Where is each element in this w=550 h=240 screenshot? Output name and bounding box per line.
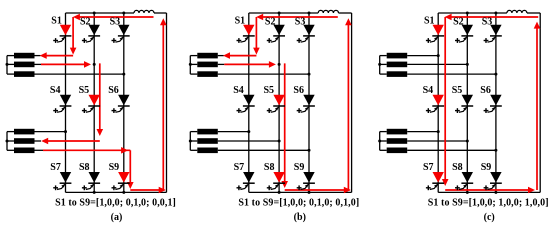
wire column 2 (S2-S5-S8) (panel a) <box>93 13 95 192</box>
svg-text:S2: S2 <box>453 16 464 27</box>
switch S5 (panel b) <box>264 85 286 113</box>
wire red path: top bus leftward (panel c) <box>445 14 539 21</box>
svg-text:S6: S6 <box>293 85 304 96</box>
wire tap group2-bar1 to node column1 (panel c) <box>407 130 440 133</box>
wire red path: down beside S5 (panel a) <box>97 63 104 136</box>
wire group-2 left connector (panel b) <box>189 132 198 151</box>
caption switch states (panel c) <box>428 197 549 208</box>
switch S2 (panel b) <box>265 16 285 43</box>
svg-text:S5: S5 <box>452 85 463 96</box>
wire bottom bus (panel b) <box>249 191 352 193</box>
wire tap group2-bar3 stub (panel a) <box>35 149 44 151</box>
wire right edge (panel c) <box>539 13 541 192</box>
wire tap group2-bar2 stub (panel a) <box>35 140 42 142</box>
wire tap group1-bar3 to node column3 (panel c) <box>407 73 497 76</box>
node top bus junctions (panel a) <box>93 12 126 15</box>
wire tap group2-bar1 to node column1 (panel b) <box>218 130 251 133</box>
wire tap group2-bar2 to node column2 (panel c) <box>407 140 469 143</box>
switch S3 (panel a) <box>110 16 130 43</box>
switch S7 (panel b) <box>234 162 255 190</box>
wire tap group1-bar3 to node column3 (panel a) <box>35 73 126 76</box>
switch S6 (panel c) <box>480 85 502 113</box>
wire red path: down beside S1 (panel b) <box>253 17 260 55</box>
caption label (b) <box>294 212 306 223</box>
node bottom bus junctions (panel b) <box>278 191 311 194</box>
caption switch states (panel b) <box>238 197 359 208</box>
svg-text:S3: S3 <box>110 16 121 27</box>
switch S6 (panel a) <box>108 85 130 113</box>
switch S1 (panel a) <box>51 15 71 43</box>
svg-text:S2: S2 <box>80 16 91 27</box>
svg-text:(b): (b) <box>294 212 306 223</box>
wire tap group1-bar1 to node column1 (panel c) <box>407 54 440 57</box>
svg-text:S5: S5 <box>79 85 90 96</box>
winding bars group 2 (panel b) <box>197 129 218 153</box>
winding bars group 1 (panel b) <box>197 53 218 77</box>
wire tap group1-bar2 stub (panel b) <box>218 63 281 66</box>
switch S4 (panel c) <box>423 85 445 113</box>
wire tap group1-bar2 stub (panel a) <box>35 63 96 66</box>
wire red path: group1-bar2 to column2 node (panel b) <box>224 61 276 68</box>
wire group-2 left connector (panel a) <box>6 132 15 151</box>
wire bottom bus (panel c) <box>438 191 540 193</box>
switch S8 (panel b) <box>264 162 285 190</box>
wire top bus (panel c) <box>438 12 540 14</box>
switch S4 (panel a) <box>50 85 72 113</box>
winding bars group 2 (panel c) <box>387 129 408 153</box>
wire red path: into group2-bar2 (panel a) <box>41 138 100 145</box>
switch S1 (panel b) <box>235 15 255 43</box>
wire red path: bottom bus rightward (panel b) <box>285 187 351 194</box>
svg-text:S2: S2 <box>265 16 276 27</box>
wire red path: down beside S1,S4,S7 (panel c) <box>442 17 449 186</box>
wire tap group1-bar1 stub (panel a) <box>35 55 41 57</box>
svg-text:S4: S4 <box>50 85 61 96</box>
wire column 1 (S1-S4-S7) (panel b) <box>248 13 250 192</box>
switch S3 (panel b) <box>295 16 315 43</box>
wire column 3 (S3-S6-S9) (panel a) <box>123 13 125 192</box>
wire tap group1-bar1 stub (panel b) <box>218 55 224 57</box>
svg-text:S1 to S9=[1,0,0; 0,1,0; 0,1,0]: S1 to S9=[1,0,0; 0,1,0; 0,1,0] <box>238 197 359 208</box>
caption label (a) <box>111 212 123 223</box>
svg-text:(a): (a) <box>111 212 123 223</box>
svg-text:S6: S6 <box>108 85 119 96</box>
wire red path: group1-bar2 to column2 node (panel a) <box>41 61 91 68</box>
node top bus junctions (panel c) <box>466 12 498 15</box>
wire tap group1-bar3 to node column3 (panel b) <box>218 73 311 76</box>
wire red path: right edge up (panel c) <box>534 22 541 190</box>
wire column 3 (S3-S6-S9) (panel c) <box>495 13 497 192</box>
svg-text:S1 to S9=[1,0,0; 1,0,0; 1,0,0]: S1 to S9=[1,0,0; 1,0,0; 1,0,0] <box>428 197 549 208</box>
wire red path: into group1-bar1 (panel b) <box>223 52 256 59</box>
inductor L (panel c) <box>507 10 527 13</box>
wire red path: top bus leftward (panel b) <box>256 14 338 21</box>
switch S2 (panel a) <box>80 16 100 43</box>
wire bottom bus (panel a) <box>66 191 167 193</box>
switch S3 (panel c) <box>482 16 502 43</box>
inductor L (panel b) <box>318 10 338 13</box>
wire column 1 (S1-S4-S7) (panel a) <box>65 13 67 192</box>
wire tap group2-bar3 to node column3 (panel b) <box>218 149 311 152</box>
node top bus junctions (panel b) <box>278 12 311 15</box>
wire group-2 left connector (panel c) <box>378 132 387 151</box>
wire red path: bottom bus rightward (panel a) <box>130 187 165 194</box>
switch S9 (panel a) <box>109 162 130 190</box>
wire red path: right edge up (panel b) <box>345 18 352 190</box>
wire top bus (panel a) <box>66 12 167 14</box>
switch S4 (panel b) <box>233 85 255 113</box>
wire right edge (panel a) <box>166 13 168 192</box>
svg-text:S5: S5 <box>264 85 275 96</box>
wire tap group2-bar2 to node column2 (panel b) <box>218 140 281 143</box>
wire column 3 (S3-S6-S9) (panel b) <box>308 13 310 192</box>
switch S8 (panel c) <box>452 162 473 190</box>
switch S2 (panel c) <box>453 16 473 43</box>
switch S9 (panel c) <box>481 162 502 190</box>
svg-text:S9: S9 <box>481 162 492 173</box>
switch S7 (panel a) <box>50 162 71 190</box>
svg-text:S3: S3 <box>295 16 306 27</box>
winding bars group 1 (panel a) <box>14 53 35 77</box>
svg-text:S3: S3 <box>482 16 493 27</box>
svg-text:S1: S1 <box>235 15 246 26</box>
wire group-1 left connector (panel a) <box>6 56 15 75</box>
wire column 1 (S1-S4-S7) (panel c) <box>437 13 439 192</box>
wire tap group1-bar2 to node column2 (panel c) <box>407 63 469 66</box>
wire red path: top bus leftward (panel a) <box>73 14 154 21</box>
wire red path: right edge up (panel a) <box>160 18 167 190</box>
wire column 2 (S2-S5-S8) (panel b) <box>278 13 280 192</box>
wire red path: into group1-bar1 (panel a) <box>40 52 73 59</box>
wire red path: bottom bus rightward (panel c) <box>445 187 535 194</box>
winding bars group 1 (panel c) <box>387 53 408 77</box>
svg-text:S1: S1 <box>424 15 435 26</box>
svg-text:(c): (c) <box>484 212 495 223</box>
switch S7 (panel c) <box>423 162 444 190</box>
svg-text:S7: S7 <box>50 162 61 173</box>
winding bars group 2 (panel a) <box>14 129 35 153</box>
svg-text:S6: S6 <box>480 85 491 96</box>
wire group-1 left connector (panel b) <box>189 56 198 75</box>
switch S6 (panel b) <box>293 85 315 113</box>
svg-text:S8: S8 <box>79 162 90 173</box>
inductor L (panel a) <box>134 10 154 13</box>
wire right edge (panel b) <box>351 13 353 192</box>
switch S5 (panel c) <box>452 85 474 113</box>
caption switch states (panel a) <box>55 197 176 208</box>
node bottom bus junctions (panel c) <box>466 191 498 194</box>
svg-text:S7: S7 <box>234 162 245 173</box>
wire red path: down beside S9 (panel a) <box>127 150 134 189</box>
wire red path: group2-bar3 rightward (panel a) <box>43 147 130 154</box>
wire column 2 (S2-S5-S8) (panel c) <box>466 13 468 192</box>
wire tap group2-bar3 to node column3 (panel c) <box>407 149 497 152</box>
switch S5 (panel a) <box>79 85 101 113</box>
caption label (c) <box>484 212 495 223</box>
svg-text:S9: S9 <box>109 162 120 173</box>
switch S8 (panel a) <box>79 162 100 190</box>
svg-text:S7: S7 <box>423 162 434 173</box>
svg-text:S8: S8 <box>452 162 463 173</box>
switch S9 (panel b) <box>294 162 315 190</box>
svg-text:S8: S8 <box>264 162 275 173</box>
wire top bus (panel b) <box>249 12 352 14</box>
wire tap group2-bar1 to node column1 (panel a) <box>35 130 68 133</box>
svg-text:S1 to S9=[1,0,0; 0,1,0; 0,0,1]: S1 to S9=[1,0,0; 0,1,0; 0,0,1] <box>55 197 176 208</box>
wire red path: down beside S5 and S8 (panel b) <box>281 63 288 188</box>
wire group-1 left connector (panel c) <box>378 56 387 75</box>
wire red path: down beside S1 (panel a) <box>70 17 77 55</box>
svg-text:S1: S1 <box>51 15 62 26</box>
svg-text:S4: S4 <box>423 85 434 96</box>
node bottom bus junctions (panel a) <box>93 191 126 194</box>
svg-text:S9: S9 <box>294 162 305 173</box>
svg-text:S4: S4 <box>233 85 244 96</box>
switch S1 (panel c) <box>424 15 444 43</box>
